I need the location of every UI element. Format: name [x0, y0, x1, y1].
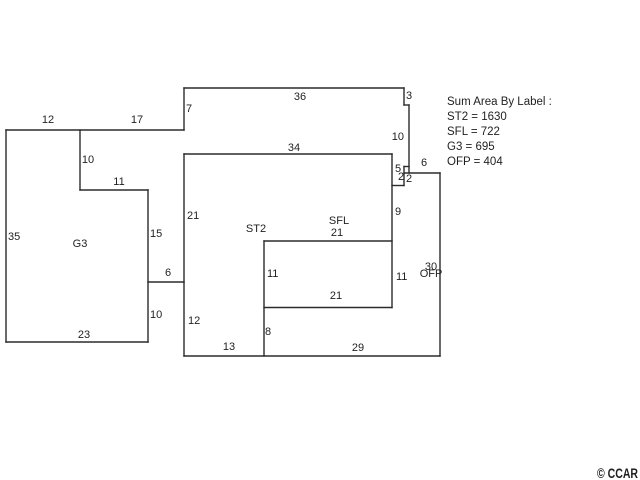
svg-text:7: 7 [186, 103, 192, 115]
svg-text:10: 10 [392, 131, 404, 143]
wire right vertical 10 [408, 105, 410, 173]
svg-text:SFL: SFL [329, 215, 349, 227]
wire ST2 top 36 [184, 87, 404, 89]
svg-text:34: 34 [288, 142, 300, 154]
wire small box left / 2 [403, 167, 405, 186]
wire G3 connector 6 [148, 281, 184, 283]
svg-text:35: 35 [8, 231, 20, 243]
svg-text:G3: G3 [73, 238, 88, 250]
svg-text:6: 6 [421, 157, 427, 169]
svg-text:ST2 = 1630: ST2 = 1630 [447, 111, 507, 123]
svg-text:OFP = 404: OFP = 404 [447, 156, 503, 168]
wire G3 bottom 23 [6, 341, 148, 343]
svg-text:11: 11 [267, 268, 278, 280]
wire G3 step vertical 10 [79, 130, 81, 190]
wire SFL top 21 [264, 240, 392, 242]
wire SFL bottom 21 [264, 307, 392, 309]
wire ST2 right 5+9+11 [391, 154, 393, 308]
svg-text:15: 15 [150, 228, 162, 240]
svg-text:36: 36 [294, 91, 306, 103]
wire G3 top 12+17 [6, 129, 184, 131]
wire G3 step horizontal 11 [80, 189, 148, 191]
svg-text:© CCAR: © CCAR [597, 466, 638, 480]
wire ST2 upper 34 [184, 153, 392, 155]
svg-text:11: 11 [113, 176, 124, 188]
svg-text:13: 13 [223, 341, 235, 353]
svg-text:17: 17 [131, 114, 143, 126]
svg-text:3: 3 [406, 90, 412, 102]
wire SFL left 11+8 [263, 241, 265, 356]
svg-text:12: 12 [188, 315, 200, 327]
svg-text:21: 21 [187, 210, 199, 222]
wire G3 left side 35 [5, 130, 7, 342]
svg-text:12: 12 [42, 114, 54, 126]
wire ST2 left 21+12 [183, 154, 185, 356]
svg-text:21: 21 [330, 290, 342, 302]
svg-text:11: 11 [396, 271, 407, 283]
wire bottom 13+29 [184, 355, 440, 357]
wire step 2 horizontal [392, 185, 404, 187]
wire notch vertical 3 [403, 88, 405, 105]
svg-text:OFP: OFP [420, 268, 443, 280]
svg-text:10: 10 [82, 154, 94, 166]
svg-text:6: 6 [165, 267, 171, 279]
svg-text:9: 9 [395, 206, 401, 218]
svg-text:10: 10 [150, 309, 162, 321]
svg-text:G3 = 695: G3 = 695 [447, 141, 495, 153]
svg-text:2: 2 [406, 173, 412, 185]
wire small box top [404, 166, 409, 168]
wire G3 right side 15+10 [147, 190, 149, 342]
svg-text:ST2: ST2 [246, 223, 266, 235]
wire OFP right 30 [439, 173, 441, 356]
svg-text:21: 21 [331, 227, 343, 239]
svg-text:23: 23 [78, 329, 90, 341]
wire OFP top 6 [404, 172, 440, 174]
svg-text:8: 8 [265, 326, 271, 338]
svg-text:SFL = 722: SFL = 722 [447, 126, 500, 138]
svg-text:29: 29 [352, 342, 364, 354]
wire ST2 upper-left vertical 7 [183, 88, 185, 130]
svg-text:Sum Area By Label :: Sum Area By Label : [447, 96, 552, 108]
wire notch horizontal [404, 104, 409, 106]
svg-text:2: 2 [398, 171, 404, 183]
